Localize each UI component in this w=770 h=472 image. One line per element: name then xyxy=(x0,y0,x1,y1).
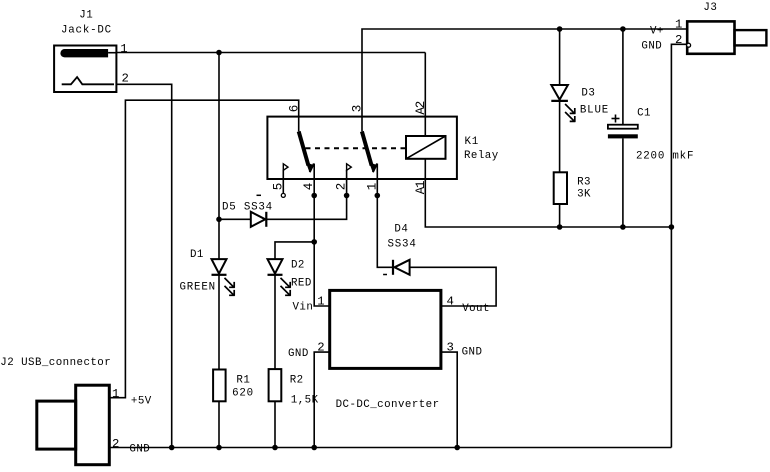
svg-text:SS34: SS34 xyxy=(388,239,417,251)
wire J1 pin1 to relay A2 (net +12V) xyxy=(116,52,425,54)
svg-text:2: 2 xyxy=(122,72,129,86)
relay dashed link xyxy=(306,147,406,149)
junction A1 net at C1 xyxy=(620,224,626,230)
junction at relay pin 1 xyxy=(375,193,381,199)
wire relay coil A1 to GND net xyxy=(425,159,671,227)
wire D5 anode to relay pin2 xyxy=(219,170,347,220)
svg-text:R2: R2 xyxy=(290,375,304,387)
svg-text:3: 3 xyxy=(351,105,365,112)
connector J3 xyxy=(641,2,766,54)
svg-text:Vout: Vout xyxy=(462,303,490,315)
wire DC-DC pin2 GND xyxy=(314,352,330,447)
svg-text:+5V: +5V xyxy=(131,396,152,408)
svg-text:GND: GND xyxy=(641,41,662,53)
svg-text:R1: R1 xyxy=(236,375,250,387)
junction GND row at DC-DC pin2 xyxy=(311,445,317,451)
svg-text:Vin: Vin xyxy=(293,302,314,314)
wire D3 R3 branch xyxy=(559,29,561,227)
wire pin4 junction to D2 R2 branch xyxy=(275,242,314,448)
DC-DC converter block xyxy=(288,290,490,411)
resistor R2 1,5K xyxy=(269,369,319,406)
svg-text:V+: V+ xyxy=(650,26,664,38)
svg-text:1,5K: 1,5K xyxy=(291,395,319,407)
wire J1 pin2 to GND row xyxy=(116,84,171,447)
wire +12V down branch to D5/D1/R1 xyxy=(218,53,220,448)
svg-text:1: 1 xyxy=(112,387,119,401)
junction on +12V line at D1 branch xyxy=(216,50,222,56)
svg-text:DC-DC_converter: DC-DC_converter xyxy=(336,399,440,411)
svg-text:BLUE: BLUE xyxy=(580,104,609,116)
svg-text:GND: GND xyxy=(288,348,309,360)
relay pin number 4 xyxy=(302,183,316,190)
svg-text:K1: K1 xyxy=(465,136,480,148)
svg-text:Jack-DC: Jack-DC xyxy=(61,25,112,37)
junction A1 net at GND riser xyxy=(669,224,675,230)
junction V+ line at D3 branch xyxy=(557,26,563,32)
wire relay coil A2 xyxy=(424,53,426,137)
junction GND row at R2 xyxy=(272,445,278,451)
svg-text:D1: D1 xyxy=(190,249,204,261)
svg-text:1: 1 xyxy=(675,18,682,32)
svg-text:D2: D2 xyxy=(291,260,305,272)
svg-text:J1: J1 xyxy=(79,9,93,21)
svg-text:1: 1 xyxy=(120,42,127,56)
resistor R3 3K xyxy=(554,172,591,204)
relay pin5 open circle xyxy=(281,193,285,197)
svg-text:2200 mkF: 2200 mkF xyxy=(636,151,694,163)
wire DC-DC pin3 GND xyxy=(441,352,457,447)
wire GND bottom row xyxy=(109,447,671,449)
svg-text:2: 2 xyxy=(112,437,119,451)
wire relay pin4 to DC-DC Vin xyxy=(314,164,330,307)
wire relay pin1 to D4 to Vout xyxy=(377,164,496,307)
relay pin number 1 xyxy=(365,183,379,190)
svg-text:4: 4 xyxy=(302,183,316,190)
junction at relay pin 4 xyxy=(311,193,317,199)
relay contact flag pin2 xyxy=(347,164,352,171)
svg-text:J2 USB_connector: J2 USB_connector xyxy=(0,357,111,369)
svg-text:D3: D3 xyxy=(581,88,595,100)
svg-text:C1: C1 xyxy=(637,108,651,120)
junction pin4 wire to D2 branch xyxy=(311,239,317,245)
relay pin number 6 xyxy=(287,105,301,112)
svg-text:A1: A1 xyxy=(414,181,428,194)
connector J2 USB_connector xyxy=(0,357,151,465)
svg-text:GND: GND xyxy=(129,444,150,456)
junction A1 net at R3 xyxy=(557,224,563,230)
LED D2 RED xyxy=(268,259,312,296)
capacitor C1 2200 mkF xyxy=(608,108,694,163)
relay lever pin6-pin4 xyxy=(299,131,314,172)
svg-text:1: 1 xyxy=(317,295,324,309)
junction at relay pin 2 xyxy=(344,193,350,199)
relay pin number 2 xyxy=(335,183,349,190)
relay pin name A1 xyxy=(414,181,428,194)
svg-text:R3: R3 xyxy=(577,177,591,189)
svg-text:5: 5 xyxy=(271,183,285,190)
relay lever pin3-pin1 xyxy=(362,131,377,172)
wire J3 pin2 GND down xyxy=(671,44,687,447)
svg-text:J3: J3 xyxy=(703,2,717,14)
wire relay pin3 to J3 pin1 (net V+) xyxy=(362,29,687,131)
wire relay pin5 stub xyxy=(282,170,284,194)
junction GND row at J1 pin2 wire xyxy=(169,445,175,451)
LED D3 BLUE xyxy=(551,85,609,122)
svg-text:D5 SS34: D5 SS34 xyxy=(222,202,273,214)
wire J2 pin1 +5V to relay pin6 xyxy=(109,100,298,398)
svg-text:Relay: Relay xyxy=(464,150,499,162)
diode D4 SS34 xyxy=(383,224,417,275)
svg-text:GREEN: GREEN xyxy=(180,281,216,293)
diode D5 SS34 xyxy=(222,195,273,227)
svg-text:6: 6 xyxy=(287,105,301,112)
connector J1 Jack-DC xyxy=(54,9,129,92)
relay pin number 3 xyxy=(351,105,365,112)
svg-text:3: 3 xyxy=(447,340,454,354)
svg-text:2: 2 xyxy=(335,183,349,190)
LED D1 GREEN xyxy=(180,249,235,296)
junction V+ line at C1 branch xyxy=(620,26,626,32)
svg-text:3K: 3K xyxy=(577,189,591,201)
svg-text:2: 2 xyxy=(317,341,324,355)
svg-text:620: 620 xyxy=(232,387,254,399)
relay pin number 5 xyxy=(271,183,285,190)
svg-text:A2: A2 xyxy=(414,101,428,114)
svg-text:1: 1 xyxy=(365,183,379,190)
resistor R1 620 xyxy=(213,370,254,402)
relay contact flag pin5 xyxy=(283,164,288,171)
svg-text:D4: D4 xyxy=(394,224,408,236)
relay coil xyxy=(406,136,446,159)
junction GND row at DC-DC pin3 xyxy=(454,445,460,451)
svg-text:GND: GND xyxy=(462,347,483,359)
svg-text:2: 2 xyxy=(675,33,682,47)
wire C1 branch xyxy=(622,29,624,227)
relay K1 outline xyxy=(267,117,498,179)
svg-text:4: 4 xyxy=(447,295,454,309)
junction GND row at R1 xyxy=(216,445,222,451)
svg-text:RED: RED xyxy=(291,278,312,290)
relay pin name A2 xyxy=(414,101,428,114)
junction D5 anode xyxy=(216,217,222,223)
